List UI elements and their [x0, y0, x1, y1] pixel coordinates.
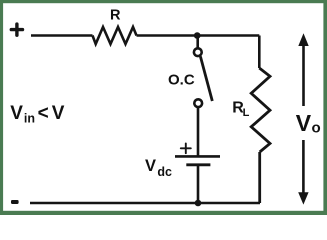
svg-text:V: V — [52, 103, 65, 124]
wire switch feed — [196, 37, 199, 49]
svg-text:V: V — [145, 157, 156, 175]
svg-text:O.C: O.C — [168, 71, 195, 88]
wire top-middle segment — [137, 34, 260, 37]
svg-text:R: R — [110, 8, 121, 24]
wire top-left segment — [31, 34, 93, 37]
wire right bottom segment — [258, 152, 261, 203]
wire bottom rail — [30, 202, 260, 205]
svg-text:dc: dc — [157, 165, 172, 179]
svg-text:V: V — [10, 103, 23, 124]
resistor RL — [251, 68, 270, 152]
svg-text:V: V — [296, 110, 312, 136]
terminal - (input negative) — [11, 200, 19, 204]
svg-text:L: L — [243, 107, 250, 119]
svg-text:in: in — [24, 111, 35, 125]
wire battery to bottom rail — [197, 166, 200, 203]
svg-text:<: < — [38, 103, 49, 124]
wire right top segment — [258, 36, 261, 69]
terminal + (input positive) — [11, 24, 22, 35]
battery Vdc positive plate — [175, 155, 220, 158]
battery Vdc polarity plus — [181, 143, 191, 153]
battery Vdc negative plate — [186, 163, 210, 166]
node junction bottom — [195, 200, 202, 207]
resistor R — [93, 27, 137, 44]
arrow Vo up — [298, 33, 308, 106]
switch bottom contact — [194, 99, 202, 107]
switch blade (open) — [200, 56, 212, 101]
svg-text:o: o — [312, 119, 321, 136]
node junction top — [194, 32, 201, 39]
switch top contact — [194, 48, 202, 56]
arrow Vo down — [298, 140, 308, 205]
wire switch to battery — [197, 107, 200, 156]
